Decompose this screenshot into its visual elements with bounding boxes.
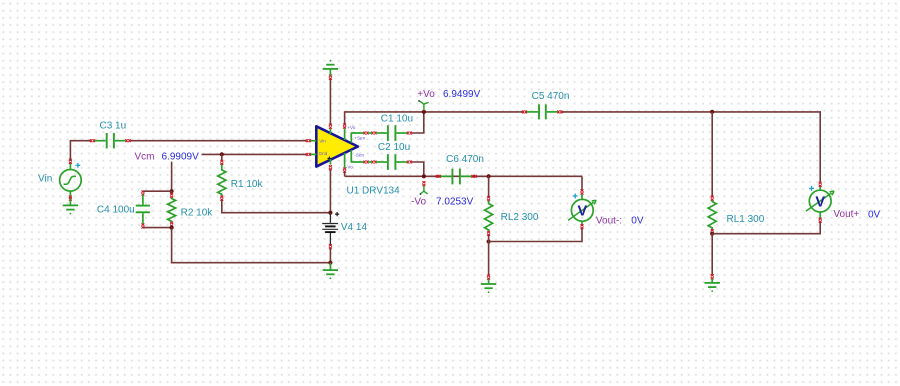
svg-text:RL2 300: RL2 300 xyxy=(501,212,539,223)
capacitor C1 xyxy=(376,125,407,141)
pin mark battery bottom xyxy=(329,244,332,249)
capacitor C6 xyxy=(440,169,472,185)
op-amp +Vo stub xyxy=(344,128,346,140)
pin mark op-amp Vin xyxy=(306,139,311,142)
wire junction to C4 top xyxy=(143,190,172,192)
capacitor C2 xyxy=(376,154,407,170)
resistor RL2 xyxy=(485,201,493,232)
capacitor C3 xyxy=(95,133,126,148)
pin mark C6 right xyxy=(472,175,477,178)
wire C4 bottom to junction xyxy=(143,227,172,229)
voltmeter Vout+ xyxy=(806,186,834,219)
wire RL2 top lead xyxy=(488,176,490,196)
svg-text:C4 100u: C4 100u xyxy=(97,204,135,215)
pin mark RL1 bottom xyxy=(711,229,714,234)
junction R2 bottom xyxy=(170,226,174,230)
pin mark voltmeter Vout- top xyxy=(581,190,584,195)
pin mark C3 right xyxy=(126,139,131,142)
junction RL2 bottom xyxy=(487,239,491,243)
svg-text:6.9909V: 6.9909V xyxy=(162,151,200,162)
svg-text:U1 DRV134: U1 DRV134 xyxy=(347,186,401,197)
svg-text:Vin: Vin xyxy=(38,174,52,185)
svg-text:C5 470n: C5 470n xyxy=(532,91,570,102)
svg-text:V: V xyxy=(815,194,825,210)
svg-text:C2 10u: C2 10u xyxy=(378,142,410,153)
pin mark op-amp V- xyxy=(329,165,332,170)
pin mark C2 right xyxy=(407,161,412,164)
svg-text:Gnd: Gnd xyxy=(319,151,328,156)
pin mark op-amp Gnd xyxy=(306,153,311,156)
wire C5 to Vout+ corner xyxy=(562,112,820,182)
junction +Vo node xyxy=(422,110,426,114)
ground below Vin xyxy=(63,200,78,215)
op-amp input stub Vin xyxy=(311,140,317,142)
svg-text:R1 10k: R1 10k xyxy=(231,179,264,190)
wire RL1 bottom to ground xyxy=(711,234,713,275)
pin mark RL1 ground xyxy=(711,274,714,279)
wire +Sen to C1 xyxy=(368,132,372,134)
wire RL2 pin to junction xyxy=(488,236,490,242)
wire C1 to +Vo node xyxy=(412,113,424,133)
pin mark R2 bottom xyxy=(170,222,173,227)
wire C2 to -Vo node xyxy=(412,162,424,175)
svg-text:V: V xyxy=(577,204,587,220)
svg-text:-Sen: -Sen xyxy=(354,153,364,158)
svg-text:7.0253V: 7.0253V xyxy=(436,197,474,208)
svg-text:V4 14: V4 14 xyxy=(341,222,368,233)
wire -Sen to C2 xyxy=(368,161,372,163)
wire R2 top junction to pin xyxy=(171,191,173,193)
wire R1 bottom to V- rail xyxy=(222,200,331,213)
pin mark C5 right xyxy=(557,110,562,113)
wire voltmeter Vout+ to RL1 bottom xyxy=(712,222,820,234)
voltage pin marker +Vo xyxy=(418,100,429,111)
svg-text:+Vo: +Vo xyxy=(347,125,355,130)
op-amp -Vo stub xyxy=(344,153,346,168)
pin mark R2 top xyxy=(170,193,173,198)
svg-text:C1 10u: C1 10u xyxy=(381,113,413,124)
pin mark C1 right xyxy=(407,132,412,135)
pin mark R1 bottom xyxy=(220,196,223,201)
pin mark voltmeter Vout+ top xyxy=(819,182,822,187)
pin mark -Vo xyxy=(343,168,346,173)
pin mark -Sen xyxy=(364,161,369,164)
capacitor C4 xyxy=(136,195,150,225)
voltmeter Vout- xyxy=(568,194,596,225)
pin mark top ground xyxy=(329,75,332,80)
ground below RL2 xyxy=(481,279,496,293)
junction RL2 top xyxy=(487,174,491,178)
wire Vcm node down to R2/C4 xyxy=(171,154,173,191)
svg-text:RL1 300: RL1 300 xyxy=(727,214,765,225)
wire C3 to op-amp Vin xyxy=(130,140,306,142)
pin mark op-amp V+ xyxy=(329,124,332,129)
wire junction to R1 xyxy=(221,154,223,160)
wire RL2 bottom to ground xyxy=(488,242,490,276)
resistor R2 xyxy=(168,198,176,223)
svg-text:+Sen: +Sen xyxy=(354,136,365,141)
op-amp plus mark xyxy=(328,157,332,161)
wire -Vo rail corner to voltmeter xyxy=(581,176,583,190)
resistor RL1 xyxy=(708,200,716,230)
op-amp V- stub xyxy=(329,159,331,165)
junction battery top xyxy=(328,211,332,215)
resistor R1 xyxy=(218,165,226,197)
pin mark C5 left xyxy=(522,110,527,113)
wire -Vo rail xyxy=(345,175,582,177)
svg-text:Vout+: Vout+ xyxy=(833,209,859,220)
ground flipped at top xyxy=(323,60,338,76)
wire C6 to RL2 node xyxy=(476,175,489,177)
wire battery to ground junction xyxy=(329,249,331,263)
ground below RL1 xyxy=(705,279,720,292)
wire V- down to battery junction xyxy=(329,170,331,213)
svg-text:Vin: Vin xyxy=(319,139,326,144)
op-amp U1 triangle xyxy=(316,126,358,166)
wire R2 bottom to ground rail xyxy=(172,228,331,263)
pin mark R1 top xyxy=(220,160,223,165)
voltage pin marker -Vo xyxy=(420,186,428,195)
junction RL1 bottom xyxy=(710,232,714,236)
svg-text:-Vo: -Vo xyxy=(346,165,353,170)
wire V+ to top ground xyxy=(329,79,331,124)
junction RL1 top xyxy=(710,110,714,114)
wire Vin to C3 xyxy=(70,141,90,161)
op-amp input stub Gnd xyxy=(311,153,317,155)
svg-text:0V: 0V xyxy=(631,216,644,227)
pin mark -Vo voltage pin xyxy=(422,181,425,186)
junction R1 top xyxy=(220,152,224,156)
pin mark RL2 ground xyxy=(487,275,490,280)
op-amp V+ stub xyxy=(329,129,331,135)
pin mark voltmeter Vout- bottom xyxy=(581,224,584,229)
wire -Vo pin to rail xyxy=(344,172,346,176)
battery V4 xyxy=(322,213,338,245)
pin mark voltmeter Vout+ bottom xyxy=(819,218,822,223)
pin mark C4 top xyxy=(141,191,144,196)
pin mark C3 left xyxy=(90,139,95,142)
pin mark +Sen xyxy=(364,132,369,135)
svg-text:C3 1u: C3 1u xyxy=(100,120,127,131)
svg-text:6.9499V: 6.9499V xyxy=(443,89,481,100)
ground below battery xyxy=(323,263,338,280)
pin mark C1 left xyxy=(371,132,376,135)
pin mark C4 bottom xyxy=(141,224,144,229)
svg-text:C6 470n: C6 470n xyxy=(446,154,484,165)
svg-text:R2 10k: R2 10k xyxy=(181,208,214,219)
wire voltmeter Vout- to RL2 bottom xyxy=(489,229,582,242)
pin mark Vin top xyxy=(69,159,72,164)
pin mark Vin bottom xyxy=(69,196,72,201)
op-amp +Sen stub xyxy=(351,133,364,143)
junction ground rail xyxy=(328,261,332,265)
pin mark RL1 top xyxy=(711,196,714,201)
pin mark RL2 bottom xyxy=(487,231,490,236)
svg-text:Vcm: Vcm xyxy=(135,151,155,162)
battery plus mark xyxy=(335,212,339,216)
pin mark RL2 top xyxy=(487,196,490,201)
wire node Vcm to op-amp Gnd xyxy=(172,153,307,155)
capacitor C5 xyxy=(527,104,558,119)
svg-text:+Vo: +Vo xyxy=(417,89,435,100)
junction R2 top xyxy=(170,189,174,193)
op-amp -Sen stub xyxy=(351,150,364,162)
svg-text:Vout-:: Vout-: xyxy=(596,216,622,227)
label background Vcm xyxy=(131,149,202,162)
svg-text:0V: 0V xyxy=(868,210,881,221)
pin mark C6 left xyxy=(436,175,441,178)
junction -Vo node xyxy=(422,174,426,178)
pin mark C2 left xyxy=(371,161,376,164)
wire +Vo pin to top rail xyxy=(345,112,524,124)
svg-text:-Vo: -Vo xyxy=(411,197,426,208)
wire RL1 top lead xyxy=(711,112,713,196)
pin mark +Vo xyxy=(343,124,346,129)
voltage source Vin xyxy=(60,163,82,200)
